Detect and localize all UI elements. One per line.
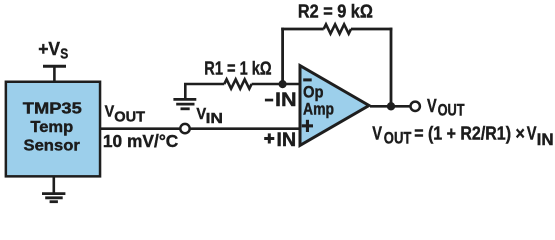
svg-text:V: V [427,96,437,116]
ground bar 1 [42,192,65,195]
feedback rail left segment [281,28,324,31]
output terminal open circle [411,102,420,111]
feedback rail right segment [351,28,392,31]
svg-text:TMP35: TMP35 [23,101,82,118]
ground stem below box [52,176,55,193]
junction dot output node [387,102,395,110]
ground bar 3 [50,200,58,203]
svg-text:R2 = 9 kΩ: R2 = 9 kΩ [298,1,373,21]
svg-text:IN: IN [537,130,554,149]
label TMP35 Temp Sensor [23,101,82,155]
label +IN plus sign [264,137,274,140]
svg-text:OUT: OUT [438,102,465,120]
op-amp plus sign [302,124,313,127]
node VIN open circle [180,124,189,133]
svg-text:S: S [60,47,68,63]
ground bar 2 [45,196,63,199]
svg-text:+V: +V [38,39,60,59]
ground stem for R1 [184,84,187,98]
R1 ground bar 3 [181,107,190,110]
svg-text:V: V [105,103,115,120]
TMP35 sensor box [6,82,100,177]
feedback wire up from -IN node [281,28,284,84]
svg-text:10 mV/°C: 10 mV/°C [103,131,179,151]
svg-text:R1 = 1 kΩ: R1 = 1 kΩ [204,59,271,79]
svg-text:OUT: OUT [384,129,412,148]
svg-text:IN: IN [206,110,223,127]
output wire from op-amp [370,105,411,108]
feedback wire down to output node [390,28,393,107]
label -IN minus sign [265,99,273,102]
svg-text:Temp: Temp [30,119,73,136]
wire ground to R1 [184,83,224,86]
svg-text:V: V [372,124,382,144]
supply stem wire [53,66,56,81]
svg-text:IN: IN [275,89,297,111]
wire R1 to -IN [252,83,300,86]
svg-text:= (1 + R2/R1) ×: = (1 + R2/R1) × [414,124,525,144]
resistor R2 zigzag [324,24,351,33]
R1 ground bar 2 [176,103,194,106]
op-amp U1 triangle [300,66,369,146]
resistor R1 zigzag [224,79,251,88]
op-amp minus sign bar [303,78,312,81]
svg-text:Sensor: Sensor [24,137,80,154]
svg-text:IN: IN [276,129,296,151]
wire box to +IN of op-amp [100,127,300,130]
svg-text:OUT: OUT [114,110,145,126]
junction dot -IN node [279,80,287,88]
supply +VS bar [43,65,66,68]
svg-text:Amp: Amp [303,100,334,118]
R1 ground bar 1 [173,98,196,101]
svg-text:Op: Op [303,83,324,101]
svg-text:V: V [527,124,537,144]
